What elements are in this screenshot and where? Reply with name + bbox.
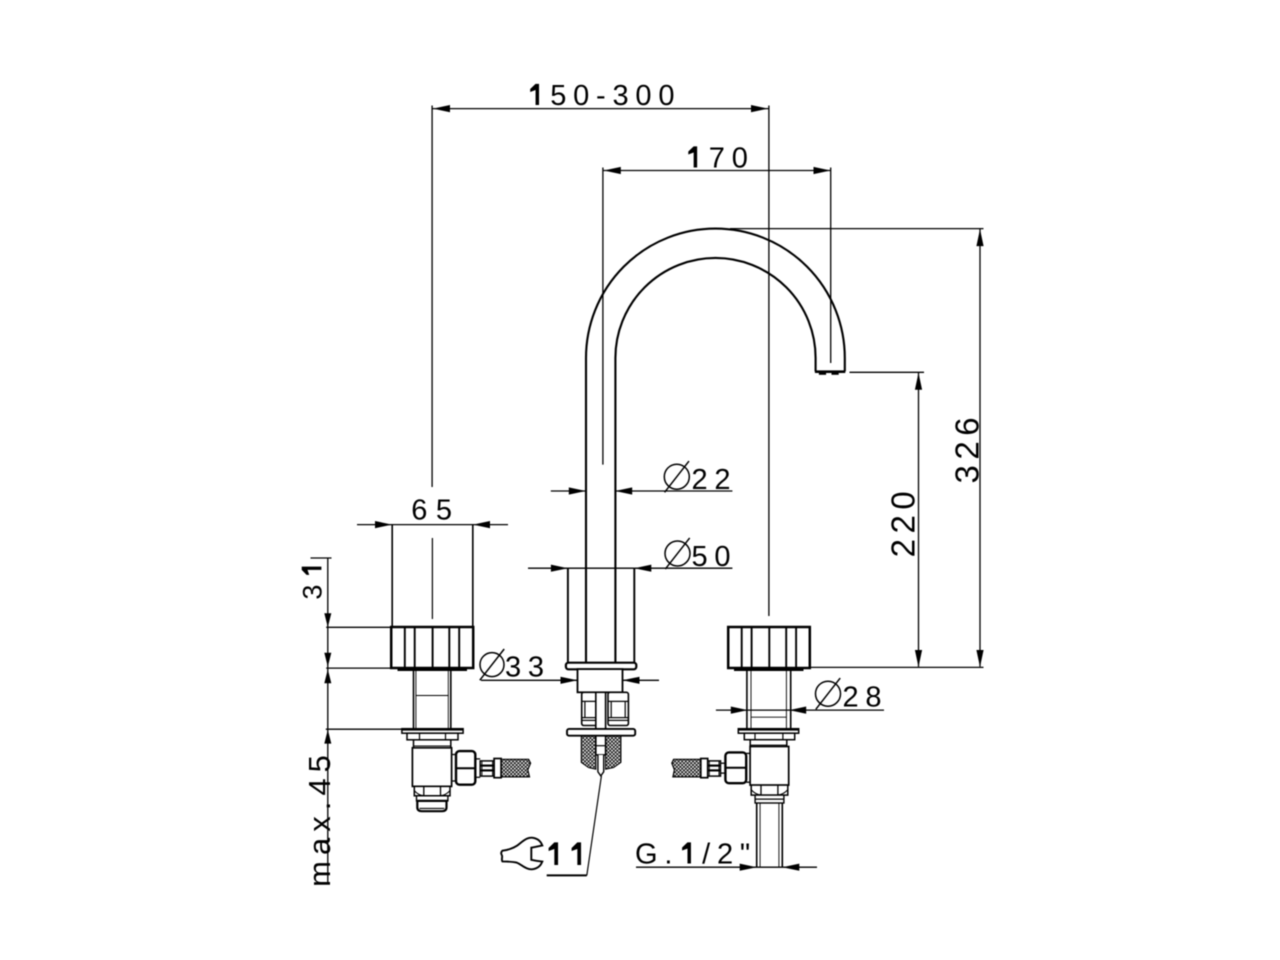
svg-text:3: 3 xyxy=(297,578,327,600)
svg-text:28: 28 xyxy=(843,682,889,714)
svg-text:50-300: 50-300 xyxy=(550,80,681,112)
svg-text:33: 33 xyxy=(505,652,551,684)
svg-text:max.45: max.45 xyxy=(302,749,337,887)
svg-text:70: 70 xyxy=(709,143,755,175)
svg-text:65: 65 xyxy=(411,495,460,527)
svg-text:G.: G. xyxy=(635,839,679,871)
svg-text:/2": /2" xyxy=(702,839,757,871)
svg-text:50: 50 xyxy=(692,541,738,573)
svg-text:220: 220 xyxy=(885,486,922,558)
svg-text:22: 22 xyxy=(692,464,738,496)
svg-text:326: 326 xyxy=(949,412,986,484)
